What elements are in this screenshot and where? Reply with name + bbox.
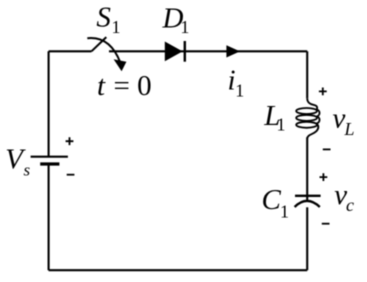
svg-text:t: t (97, 70, 106, 102)
svg-text:s: s (24, 160, 31, 179)
svg-text:S: S (96, 2, 111, 34)
svg-text:1: 1 (280, 201, 289, 221)
svg-text:= 0: = 0 (114, 70, 152, 102)
svg-text:1: 1 (112, 17, 121, 37)
svg-text:1: 1 (235, 80, 244, 100)
svg-text:1: 1 (180, 17, 189, 37)
svg-text:1: 1 (277, 114, 286, 134)
svg-text:L: L (344, 119, 355, 139)
svg-text:C: C (262, 184, 282, 216)
svg-text:c: c (346, 195, 354, 215)
